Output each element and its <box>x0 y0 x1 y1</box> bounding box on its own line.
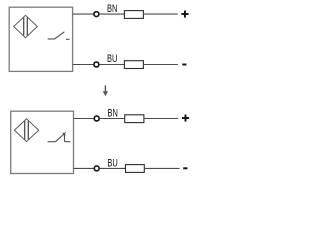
load resistor (top BN wire) <box>124 11 143 19</box>
NC switch contact (bottom sensor) <box>48 132 71 141</box>
sensor symbol plates (bottom) <box>25 121 29 139</box>
svg-text:BU: BU <box>107 156 118 169</box>
sensor body outline (top sensor, NO type) <box>9 7 72 71</box>
wire: resistor to + supply (bottom) <box>144 118 178 120</box>
wire: BN terminal to load resistor (top) <box>99 13 124 15</box>
wire: resistor to - supply (bottom) <box>144 167 179 169</box>
svg-text:BU: BU <box>107 52 118 65</box>
load resistor (bottom BU wire) <box>126 165 145 173</box>
- supply terminal (bottom) <box>183 167 187 169</box>
wire: top sensor to BU terminal <box>73 64 94 66</box>
load resistor (top BU wire) <box>124 61 143 69</box>
inductive proximity sensor symbol (top diamond) <box>14 15 38 37</box>
sensor symbol plates (top) <box>24 18 28 36</box>
wire: BN terminal to load resistor (bottom) <box>99 118 124 120</box>
wire: resistor to + supply (top) <box>143 13 177 15</box>
terminal circle (top BU) <box>94 62 99 67</box>
wire: bottom sensor to BN terminal <box>74 118 95 120</box>
load resistor (bottom BN wire) <box>125 115 144 123</box>
- supply terminal (top) <box>182 64 186 66</box>
inductive proximity sensor symbol (bottom diamond) <box>14 119 38 142</box>
+ supply terminal (bottom) <box>182 115 189 122</box>
sensor body outline (bottom sensor, NC type) <box>11 111 74 173</box>
terminal circle (bottom BN) <box>94 116 99 121</box>
+ supply terminal (top) <box>181 11 188 18</box>
arrow separator between diagrams <box>103 85 108 96</box>
wire: top sensor to BN terminal <box>73 13 94 15</box>
terminal circle (top BN) <box>94 12 99 17</box>
NO switch contact (top sensor) <box>48 32 70 40</box>
wire: BU terminal to load resistor (bottom) <box>99 167 125 169</box>
wire: BU terminal to load resistor (top) <box>99 64 124 66</box>
svg-text:BN: BN <box>108 106 119 119</box>
svg-text:BN: BN <box>107 2 118 15</box>
wire: resistor to - supply (top) <box>143 64 177 66</box>
terminal circle (bottom BU) <box>94 166 99 171</box>
wire: bottom sensor to BU terminal <box>74 167 95 169</box>
